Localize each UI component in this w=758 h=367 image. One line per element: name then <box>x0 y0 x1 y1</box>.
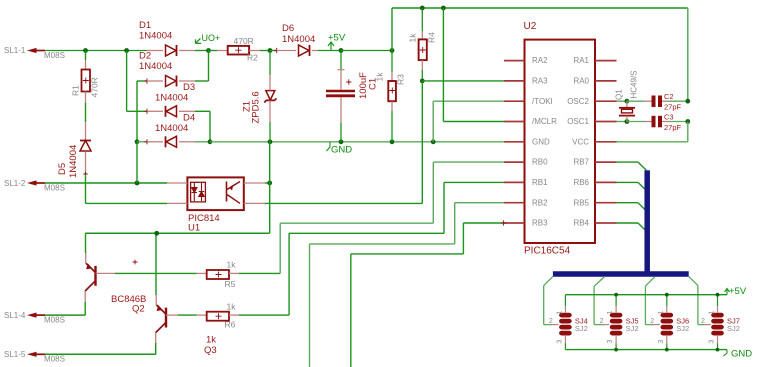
solder jumper SJ6 <box>650 295 689 350</box>
supply symbol UO+ <box>196 33 221 44</box>
svg-text:2: 2 <box>549 318 553 325</box>
svg-text:1k: 1k <box>227 302 237 312</box>
wire R6 to RB1 <box>288 233 290 315</box>
svg-text:U2: U2 <box>524 21 537 32</box>
node junction SJ7 +5V <box>716 293 720 297</box>
svg-text:R3: R3 <box>396 74 406 85</box>
svg-text:D2: D2 <box>139 51 151 62</box>
connector SL1-4 <box>27 313 37 318</box>
wire <box>45 314 85 316</box>
wire <box>85 174 87 203</box>
node junction SL1-1/R1 <box>83 48 88 53</box>
wire <box>195 50 209 52</box>
svg-text:3: 3 <box>556 340 563 344</box>
svg-text:1: 1 <box>607 311 614 315</box>
wire R5 to RB0 <box>279 223 281 273</box>
wire bus to SJ4 <box>544 276 553 285</box>
connector SL1-5 <box>27 352 37 357</box>
node junction SJ6 +5V <box>665 293 669 297</box>
node junction R2/Z1/D6 <box>268 48 273 53</box>
svg-text:RB3: RB3 <box>532 219 548 228</box>
node junction C1 bottom <box>339 139 344 144</box>
node junction Q3 emitter <box>154 231 159 236</box>
svg-text:3: 3 <box>607 340 614 344</box>
wire RB6 to bus <box>617 181 639 183</box>
wire <box>270 50 277 52</box>
connector SL1-1 <box>27 48 37 53</box>
node junction SJ5 GND <box>614 348 618 352</box>
svg-text:UO+: UO+ <box>202 33 221 43</box>
wire TOCKI to GND <box>433 100 504 102</box>
svg-text:RB2: RB2 <box>532 198 548 207</box>
capacitor C3 <box>627 113 688 133</box>
svg-text:R2: R2 <box>247 53 258 63</box>
wire <box>209 111 211 142</box>
node junction R4/RA3 <box>420 79 425 84</box>
svg-text:RA2: RA2 <box>532 56 548 65</box>
transistor Q3 <box>156 233 217 356</box>
node junction R3 bottom <box>390 139 395 144</box>
node junction SJ6 GND <box>665 348 669 352</box>
wire VCC <box>687 122 689 142</box>
svg-text:M08S: M08S <box>44 184 65 193</box>
wire GND jumper rail <box>565 349 727 351</box>
node junction C2 right <box>685 99 690 104</box>
svg-text:RB5: RB5 <box>573 198 589 207</box>
svg-text:OSC2: OSC2 <box>567 97 589 106</box>
svg-text:1N4004: 1N4004 <box>139 61 172 72</box>
node junction OSC2/XTAL <box>625 99 630 104</box>
wire <box>127 110 147 112</box>
solder jumper SJ5 <box>600 295 639 350</box>
diode D3 <box>147 82 195 117</box>
svg-text:/TOKI: /TOKI <box>532 97 553 106</box>
wire <box>208 51 210 82</box>
svg-text:GND: GND <box>731 349 752 360</box>
svg-text:1N4004: 1N4004 <box>155 93 188 104</box>
svg-text:D1: D1 <box>139 20 151 31</box>
svg-text:3: 3 <box>709 340 716 344</box>
wire <box>617 121 627 123</box>
node junction MCLR column top <box>441 6 446 11</box>
pin end cross <box>144 78 149 83</box>
wire <box>136 81 138 142</box>
svg-text:Q1: Q1 <box>615 89 624 100</box>
svg-text:1k: 1k <box>375 72 385 82</box>
node junction R4 top <box>420 6 425 11</box>
svg-text:SL1-2: SL1-2 <box>4 179 26 188</box>
node junction U1 collector <box>267 181 272 186</box>
svg-text:1N4004: 1N4004 <box>139 31 172 42</box>
node junction SL1-2/bridge <box>135 181 140 186</box>
svg-text:SJ2: SJ2 <box>626 324 639 333</box>
wire <box>195 141 210 143</box>
svg-text:GND: GND <box>532 137 550 146</box>
node UO+ junction <box>206 48 211 53</box>
bus <box>553 170 689 274</box>
wire <box>209 50 218 52</box>
resistor R2 <box>217 36 260 63</box>
diode D4 <box>147 113 195 148</box>
svg-text:RB0: RB0 <box>532 158 548 167</box>
resistor R3 <box>375 51 406 142</box>
resistor R5 <box>115 260 280 290</box>
wire GND rail <box>210 141 504 143</box>
transistor Q2 <box>85 233 146 315</box>
svg-text:SL1-1: SL1-1 <box>4 46 26 55</box>
crystal Q1 <box>615 70 639 121</box>
wire <box>85 51 87 61</box>
svg-text:RB4: RB4 <box>573 219 589 228</box>
wire <box>421 81 423 203</box>
wire U1 collector <box>265 182 270 184</box>
solder jumper SJ4 <box>549 295 588 350</box>
wire bus to SJ5 <box>594 276 605 286</box>
wire RA3 net <box>422 80 504 82</box>
optocoupler U1 PIC814 <box>167 177 265 233</box>
wire <box>318 50 341 52</box>
svg-text:SJ2: SJ2 <box>575 324 588 333</box>
wire <box>86 202 168 204</box>
svg-text:2: 2 <box>600 318 604 325</box>
zener diode Z1 <box>242 51 277 142</box>
wire <box>260 50 270 52</box>
pin end cross <box>144 139 149 144</box>
wire <box>195 80 209 82</box>
wire <box>137 80 147 82</box>
svg-text:1k: 1k <box>227 260 237 270</box>
wire <box>195 110 210 112</box>
wire <box>126 51 128 112</box>
svg-text:RB6: RB6 <box>573 178 589 187</box>
wire <box>45 353 156 355</box>
wire RB3 net <box>463 222 503 224</box>
node junction TOCKI column <box>431 139 436 144</box>
resistor R1 <box>70 60 99 103</box>
wire bus to SJ7 <box>689 276 698 285</box>
resistor R4 <box>407 8 436 81</box>
wire MCLR to +5V <box>442 8 444 122</box>
wire <box>391 8 393 51</box>
node junction SJ5 +5V <box>614 293 618 297</box>
svg-text:RA3: RA3 <box>532 77 548 86</box>
svg-text:VCC: VCC <box>572 137 589 146</box>
svg-text:SL1-4: SL1-4 <box>4 311 26 320</box>
wire <box>45 50 147 52</box>
wire bus to SJ6 <box>645 276 655 286</box>
svg-text:/MCLR: /MCLR <box>532 117 557 126</box>
svg-text:SL1-5: SL1-5 <box>4 350 26 359</box>
ground symbol GND <box>327 142 353 156</box>
wire <box>136 142 138 183</box>
svg-text:R5: R5 <box>225 279 236 289</box>
svg-text:+5V: +5V <box>328 33 346 44</box>
diode D5 <box>57 122 91 178</box>
supply symbol +5V (bottom) <box>725 286 747 297</box>
svg-text:470R: 470R <box>90 77 100 97</box>
svg-text:SJ2: SJ2 <box>676 324 689 333</box>
wire emitter net <box>85 232 269 234</box>
pin end cross <box>274 48 279 53</box>
capacitor C1 <box>326 51 379 142</box>
svg-text:RB1: RB1 <box>532 178 548 187</box>
svg-text:C2: C2 <box>664 92 674 101</box>
svg-text:Q3: Q3 <box>204 345 217 356</box>
diode D1 <box>139 20 195 56</box>
wire <box>341 50 392 52</box>
svg-text:R4: R4 <box>427 32 437 43</box>
svg-text:D6: D6 <box>282 23 294 34</box>
svg-text:3: 3 <box>658 340 665 344</box>
svg-text:D5: D5 <box>57 163 68 175</box>
wire SL1-2 net <box>45 182 167 184</box>
wire RB7 to bus <box>617 161 639 163</box>
svg-text:1N4004: 1N4004 <box>68 145 79 178</box>
svg-text:R6: R6 <box>225 320 236 330</box>
node junction R3 top <box>390 48 395 53</box>
wire +5V top rail <box>392 7 688 9</box>
svg-text:HC49/S: HC49/S <box>630 70 639 98</box>
svg-text:U1: U1 <box>188 223 200 234</box>
svg-text:RA1: RA1 <box>573 56 589 65</box>
svg-text:D4: D4 <box>183 113 195 124</box>
svg-text:+5V: +5V <box>729 286 747 297</box>
svg-text:M08S: M08S <box>44 355 65 364</box>
svg-text:470R: 470R <box>234 36 254 46</box>
node junction D4 left <box>135 139 140 144</box>
svg-text:1: 1 <box>658 311 665 315</box>
svg-text:1: 1 <box>556 311 563 315</box>
wire +5V right drop <box>687 8 689 101</box>
wire RB5 to bus <box>617 202 639 204</box>
svg-text:27pF: 27pF <box>664 123 682 132</box>
ground symbol GND (bottom) <box>724 349 753 360</box>
svg-text:1: 1 <box>709 311 716 315</box>
node junction Z1 bottom <box>268 139 273 144</box>
wire <box>85 103 87 122</box>
svg-text:1N4004: 1N4004 <box>155 123 188 134</box>
svg-text:C3: C3 <box>664 113 674 122</box>
svg-text:1N4004: 1N4004 <box>282 34 315 45</box>
node junction OSC1/XTAL <box>625 119 630 124</box>
wire <box>137 141 147 143</box>
node junction SJ7 GND <box>716 348 720 352</box>
node junction C1 top <box>339 48 344 53</box>
svg-text:2: 2 <box>650 318 654 325</box>
svg-text:OSC1: OSC1 <box>567 117 589 126</box>
node junction C3 right <box>685 119 690 124</box>
svg-text:R1: R1 <box>70 85 80 96</box>
diode D6 <box>277 23 318 56</box>
op-amp U2 PIC16C54 IC <box>504 21 617 257</box>
pin end cross <box>501 220 506 225</box>
pin end cross <box>144 109 149 114</box>
wire U1 emitter to R4 column <box>265 202 422 204</box>
svg-text:1k: 1k <box>407 33 417 43</box>
wire <box>617 100 627 102</box>
svg-text:SJ2: SJ2 <box>727 324 740 333</box>
svg-text:PIC16C54: PIC16C54 <box>524 246 571 257</box>
svg-text:RA0: RA0 <box>573 77 589 86</box>
svg-text:2: 2 <box>701 318 705 325</box>
wire +5V jumper rail <box>565 294 727 296</box>
svg-text:ZPD5.6: ZPD5.6 <box>251 91 262 123</box>
capacitor C2 <box>627 92 688 112</box>
diode D2 <box>139 51 195 87</box>
svg-text:D3: D3 <box>183 82 195 93</box>
wire RB4 to bus <box>617 222 639 224</box>
svg-text:GND: GND <box>331 145 352 156</box>
svg-text:Q2: Q2 <box>132 304 145 315</box>
node junction SL1-1/D3 column <box>124 48 129 53</box>
svg-text:M08S: M08S <box>44 316 65 325</box>
supply symbol +5V (top) <box>328 33 346 51</box>
svg-text:1k: 1k <box>206 335 216 346</box>
svg-text:RB7: RB7 <box>573 158 589 167</box>
node junction D4 right / GND rail <box>208 139 213 144</box>
cross mark <box>133 260 138 265</box>
solder jumper SJ7 <box>701 295 740 350</box>
svg-text:27pF: 27pF <box>664 103 682 112</box>
wire <box>269 142 271 234</box>
wire RB2 net <box>455 202 504 204</box>
resistor R6 <box>178 302 289 330</box>
connector SL1-2 <box>27 180 37 185</box>
svg-text:M08S: M08S <box>44 51 65 60</box>
